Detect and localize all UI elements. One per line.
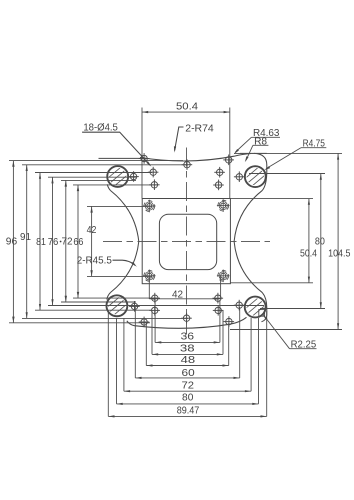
dimension 91 left: dimension line [26, 165, 28, 319]
part outline: BL lobe side blend into bottom flat [107, 292, 111, 299]
dimension 36 bottom: extension line right [219, 300, 221, 342]
label R4.75 leader [266, 148, 301, 169]
hole A1 top edge left [139, 153, 150, 164]
dimension 60 bottom: right arrow [234, 377, 240, 379]
extension line 72 top [61, 179, 136, 181]
label R2.25 leader [263, 315, 289, 349]
dimension 50.4 right: dimension line [308, 199, 310, 283]
mounting hole top-left with hatching [101, 160, 134, 192]
extension line 42 top to square corner hole [87, 205, 152, 207]
dimension 80 bottom: extension line right [258, 318, 260, 404]
part outline: top edge concave R74 curve [140, 154, 251, 162]
svg-text:80: 80 [315, 237, 325, 248]
dimension 80 bottom: left arrow [117, 403, 123, 405]
hole E1 [149, 293, 160, 304]
extension line 76 top through mounting hole centers [48, 176, 136, 178]
dimension 36 bottom: dimension line [155, 341, 220, 343]
inner square plate outline [142, 199, 230, 284]
small square detail at bottom-right mounting hole [259, 310, 265, 317]
part outline: left edge concave R45.5 lower half [111, 242, 139, 293]
hole B1 [148, 167, 159, 178]
hole G1 beside bottom-left mounting hole [129, 301, 140, 312]
dimension 72 left: top arrow [65, 180, 67, 186]
label R4.63 leader [236, 137, 252, 152]
dimension 72 left: dimension line [65, 180, 67, 302]
part outline: top edge flat at TL corner [99, 157, 144, 159]
svg-text:42: 42 [172, 290, 183, 301]
label R4.75 leader underline [301, 147, 326, 149]
svg-text:2-R45.5: 2-R45.5 [77, 256, 112, 267]
hole B2 [214, 167, 225, 178]
dimension 80 bottom: extension line left [116, 318, 118, 404]
dimension 48 bottom: left arrow [146, 364, 152, 366]
extension line 104.5 top from TR lobe [234, 152, 342, 154]
dimension 50.4 right: bottom arrow [308, 277, 310, 283]
extension line 81 top [35, 172, 152, 174]
label R2.25 arrow [263, 314, 268, 320]
dimension 81 left: bottom arrow [39, 304, 41, 310]
dimension 76 left: bottom arrow [51, 299, 53, 305]
extension line 50.4 right bottom from square corner [230, 282, 313, 284]
dimension 42 bottom: dimension line [149, 298, 220, 300]
extension line 91 top through hole A2 [22, 164, 188, 166]
label 2-R74 arrow [174, 146, 176, 152]
extension line 66 bottom through holes E1 [73, 297, 157, 299]
dimension 38 bottom: left arrow [152, 353, 158, 355]
svg-text:42: 42 [87, 225, 97, 236]
hole F2 [213, 305, 224, 316]
svg-text:72: 72 [61, 237, 72, 248]
dimension 42 left: dimension line [91, 206, 93, 276]
part outline: TR lobe top flat [240, 152, 267, 154]
dimension 60 bottom: extension line right [239, 307, 241, 378]
extension line 96 bottom [9, 322, 150, 324]
dimension 42 bottom: right arrow [214, 298, 220, 300]
dimension 72 bottom: extension line right [250, 318, 252, 391]
vertical centerline [186, 148, 188, 335]
dimension 36 bottom: right arrow [214, 341, 220, 343]
label R4.75 arrow [264, 166, 270, 170]
dimension 38 bottom: dimension line [152, 353, 223, 355]
dimension 80 right: dimension line [320, 174, 322, 309]
svg-text:50.4: 50.4 [300, 248, 317, 259]
label R4.63 arrow [234, 149, 239, 154]
part outline: TR lobe corner arc R8 [254, 153, 267, 190]
extension line 91 bottom through hole H2 [22, 317, 188, 319]
label 2-R45.5 arrow [131, 262, 136, 267]
dimension 76 left: dimension line [52, 177, 54, 305]
dimension 60 bottom: left arrow [135, 377, 141, 379]
label R4.63 leader underline [251, 136, 280, 138]
svg-text:2-R74: 2-R74 [185, 123, 214, 134]
extension line 80 right top [249, 173, 325, 175]
dimension 48 bottom: right arrow [223, 364, 229, 366]
dimension 38 bottom: extension line left [151, 310, 153, 354]
dimension 48 bottom: extension line right [228, 323, 230, 366]
extension line 42 bottom to square corner hole [87, 275, 152, 277]
dimension 42 left: top arrow [90, 206, 92, 212]
dimension 50.4 top: left arrow [142, 111, 148, 113]
label R8 leader underline [253, 144, 269, 146]
label 18-dia4.5 arrow [146, 161, 151, 166]
label 2-R45.5 leader [113, 260, 135, 265]
label 18-dia4.5 leader [82, 132, 150, 165]
svg-text:96: 96 [6, 237, 18, 248]
dimension 80 right: bottom arrow [320, 302, 322, 308]
dimension 89.47 bottom: extension line right [266, 311, 268, 416]
hole H3 bottom edge right [224, 316, 235, 327]
dimension 66 left: bottom arrow [77, 292, 79, 298]
svg-text:81: 81 [36, 237, 46, 248]
svg-text:36: 36 [181, 332, 195, 343]
extension line 80 right bottom [260, 308, 325, 310]
dimension 96 left: dimension line [12, 161, 14, 323]
label 2-R74 leader [175, 127, 184, 151]
hole H1 bottom edge left [139, 317, 150, 328]
mounting hole bottom-left with hatching [100, 290, 133, 322]
dimension 91 left: bottom arrow [26, 312, 28, 318]
extension line 104.5 bottom from BR lobe [230, 329, 342, 331]
dimension 72 bottom: right arrow [245, 390, 251, 392]
svg-text:72: 72 [182, 380, 195, 391]
hole D2 beside top-right mounting hole [234, 171, 245, 182]
dimension 66 left: top arrow [77, 185, 79, 191]
dimension 72 bottom: extension line left [123, 318, 125, 391]
threaded hole square bottom-right [217, 270, 230, 283]
dimension 60 bottom: dimension line [135, 377, 239, 379]
part outline: right edge concave R45.5 upper half [234, 190, 262, 241]
dimension 104.5 right: dimension line [337, 153, 339, 329]
hole D1 beside top-left mounting hole [128, 171, 139, 182]
svg-text:60: 60 [182, 368, 195, 379]
part outline: left edge concave R45.5 upper half [111, 191, 139, 242]
dimension 80 bottom: right arrow [252, 403, 258, 405]
hole H2 bottom edge center [181, 313, 192, 324]
hole C1 [149, 179, 160, 190]
svg-text:76: 76 [48, 237, 59, 248]
dimension 81 left: top arrow [39, 173, 41, 179]
dimension 36 bottom: left arrow [155, 341, 161, 343]
extension line 81 bottom [35, 309, 152, 311]
dimension 48 bottom: extension line left [145, 323, 147, 366]
mounting hole top-right with hatching [239, 160, 272, 192]
extension line 76 bottom through mounting hole centers [48, 305, 264, 307]
label R2.25 leader underline [290, 348, 317, 350]
extension line 66 top through holes C1 C2 [73, 184, 157, 186]
dimension 50.4 top: dimension line [142, 111, 230, 113]
dimension 89.47 bottom: right arrow [261, 415, 267, 417]
svg-text:104.5: 104.5 [328, 249, 351, 260]
hole E2 [213, 293, 224, 304]
hole A3 top edge right [223, 155, 234, 166]
dimension 50.4 top: extension line right [229, 108, 231, 199]
dimension 50.4 right: top arrow [308, 199, 310, 205]
dimension 48 bottom: dimension line [146, 365, 228, 367]
dimension 66 left: dimension line [77, 185, 79, 298]
hole A2 top edge center [182, 159, 193, 170]
horizontal centerline [103, 240, 270, 242]
central square opening with rounded corners [159, 214, 216, 269]
svg-text:80: 80 [182, 393, 194, 404]
part outline: TL lobe left side blend from mounting hole ring [107, 184, 110, 190]
dimension 81 left: dimension line [39, 173, 41, 311]
dimension 36 bottom: extension line left [154, 300, 156, 342]
dimension 50.4 top: extension line left [141, 108, 143, 199]
threaded hole square top-left [143, 200, 156, 213]
dimension 104.5 right: top arrow [337, 153, 339, 159]
dimension 96 left: bottom arrow [12, 317, 14, 323]
dimension 104.5 right: bottom arrow [337, 323, 339, 329]
dimension 72 left: bottom arrow [65, 296, 67, 302]
svg-text:89.47: 89.47 [177, 406, 200, 417]
dimension 80 right: top arrow [320, 174, 322, 180]
dimension 50.4 top: right arrow [224, 111, 230, 113]
threaded hole square top-right [217, 199, 230, 212]
dimension 38 bottom: extension line right [222, 310, 224, 354]
dimension 89.47 bottom: dimension line [108, 415, 266, 417]
dimension 42 bottom: extension line left from corner hole [148, 276, 150, 299]
mounting hole bottom-right with hatching [239, 291, 272, 323]
dimension 38 bottom: right arrow [217, 353, 223, 355]
extension line 96 top [9, 160, 183, 162]
hole G2 beside bottom-right mounting hole [234, 300, 245, 311]
dimension 76 left: top arrow [51, 177, 53, 183]
dimension 91 left: top arrow [26, 165, 28, 171]
label R8 leader [246, 145, 253, 160]
dot before 72 text [60, 241, 62, 243]
dimension 42 bottom: left arrow [149, 298, 155, 300]
part outline: BR lobe side [262, 293, 267, 322]
dimension 60 bottom: extension line left [134, 307, 136, 378]
dimension 89.47 bottom: extension line left [107, 311, 109, 416]
extension line 72 bottom [61, 301, 136, 303]
hole F1 [149, 305, 160, 316]
hole C2 [213, 180, 224, 191]
dimension 42 left: bottom arrow [90, 270, 92, 276]
svg-text:91: 91 [20, 232, 31, 243]
label R8 arrow [245, 156, 249, 162]
part outline: right edge concave R45.5 lower half [234, 242, 262, 293]
svg-text:50.4: 50.4 [176, 102, 198, 113]
dimension 96 left: top arrow [12, 161, 14, 167]
dimension 72 bottom: left arrow [124, 390, 130, 392]
part outline: bottom edge concave R74 curve [127, 317, 247, 328]
threaded hole square bottom-left [143, 270, 156, 283]
dimension 42 bottom: extension line right from corner hole [220, 276, 222, 299]
svg-text:66: 66 [73, 237, 83, 248]
svg-text:38: 38 [180, 344, 195, 355]
extension line 50.4 right top from square corner [230, 198, 313, 200]
dimension 72 bottom: dimension line [124, 390, 251, 392]
dimension 80 bottom: dimension line [117, 403, 259, 405]
svg-text:48: 48 [181, 355, 196, 366]
dimension 89.47 bottom: left arrow [108, 415, 114, 417]
